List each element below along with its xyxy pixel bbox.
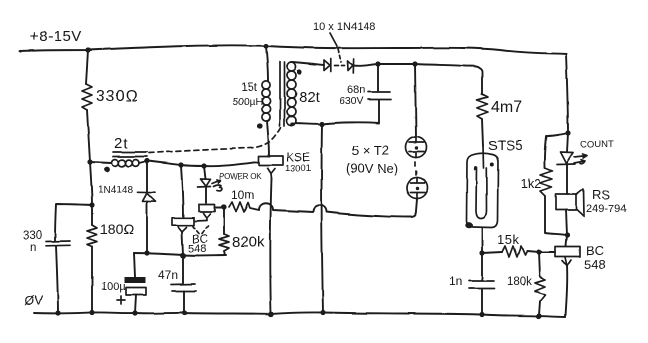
svg-text:ØV: ØV [24,293,43,308]
svg-text:548: 548 [584,257,606,272]
transistor Q4 emitter arrow [562,257,571,266]
wire: junction to 15k [482,252,502,253]
svg-text:100µ: 100µ [101,281,126,293]
capacitor 68n [368,92,391,100]
wire: 15k to base node [527,251,539,252]
GM tube anode loop [475,146,487,219]
wire: 82t bottom from coil [291,123,294,125]
svg-text:KSE: KSE [286,150,310,164]
wire: 82t return to 0V rail [322,124,323,312]
wire: Q3 emitter to 0V rail [270,179,271,313]
node: Q1 collector junction [178,162,183,167]
svg-text:1n: 1n [449,274,462,288]
svg-text:630V: 630V [339,95,364,107]
svg-text:249-794: 249-794 [586,203,626,215]
diode chain dashes [335,65,345,67]
wire: Q2 base to 10m/820k node [215,207,223,209]
wire: base node to Q4 [539,251,555,253]
svg-text:180k: 180k [507,276,532,288]
node: D2/100u junction [144,250,149,255]
wire: junction to 1n [481,253,483,280]
transistor Q3 emitter arrow [268,168,276,179]
svg-text:10m: 10m [231,188,254,202]
transistor Q4 BC548 body [555,247,580,257]
LED count [557,152,576,165]
wire: neon chain top [415,64,416,136]
82t phasing dot [297,69,302,74]
wire: 15t to KSE collector [267,121,269,156]
wire: 10m feedback to neon chain with hops [250,199,417,217]
svg-text:330Ω: 330Ω [96,88,139,105]
transistor Q1 BC548 body [172,218,194,225]
wire: node to count LED [567,133,568,152]
resistor 4m7 [477,94,488,119]
node: LED/1k2 junction [565,130,570,135]
transistor Q2 emitter arrow [195,213,211,221]
svg-text:5 × T2: 5 × T2 [352,143,389,158]
LED arrows [212,180,222,191]
node: rail/15t junction [263,43,268,48]
dashed label leaders [193,226,208,234]
wire: 820k to bus [224,251,225,255]
diode chain D3 [324,59,331,72]
capacitor 1n [469,281,495,289]
wire: Q1 emitter down [182,232,183,256]
capacitor 100u electrolytic [125,277,146,283]
label + polarity [117,296,125,304]
inductor 82t winding [287,62,296,125]
wire: 100u to 0V rail [135,295,136,313]
wire: D2 anode down [146,202,148,254]
wire: 1n to 0V rail [481,289,483,314]
svg-text:13001: 13001 [285,163,311,174]
resistor 820k [219,234,229,251]
svg-text:COUNT: COUNT [580,139,614,150]
transformer core [280,62,285,126]
diode chain D4 [348,59,354,73]
wire: tube to 15k node [481,228,483,253]
wire: LED to speaker [566,165,568,195]
resistor 330R [82,84,92,110]
label leader line [330,33,337,46]
svg-text:548: 548 [188,243,206,255]
2t core lines [113,152,147,157]
svg-text:10 x 1N4148: 10 x 1N4148 [313,21,375,33]
svg-text:n: n [30,242,36,254]
svg-text:47n: 47n [158,268,178,282]
wire: base line to KSE13001 [147,161,259,166]
capacitor 330n [46,241,70,246]
transistor Q3 KSE13001 body [259,156,283,165]
wire: rail to 330R [86,50,88,84]
wire: LED branch down [204,166,206,179]
wire: 180R to 0V rail [91,247,93,313]
node: tube/15k/1n junction [479,250,484,255]
wire: 330n to 0V rail [56,246,58,313]
svg-text:1k2: 1k2 [521,177,541,191]
svg-text:4m7: 4m7 [491,99,522,116]
wire: Q4 emitter to 0V rail [566,266,568,317]
node: 82t return junction [319,121,324,126]
svg-text:82t: 82t [299,89,321,106]
svg-text:(90V Ne): (90V Ne) [346,161,398,176]
2t phasing dot [104,167,110,173]
node: 180k ground [536,313,541,318]
neon lamp N1 [406,137,427,158]
node: 2t tee [87,159,92,164]
node: LED branch junction [201,163,206,168]
wire: emitter node bus [134,253,226,255]
GM tube cathode blob [465,222,472,228]
svg-text:330: 330 [23,230,42,242]
resistor 180k [535,277,545,301]
wire: junction to diode D2 [146,161,148,192]
wire: 0V bottom rail [34,312,566,317]
wire: speaker to collector node [566,210,567,235]
node: 68n junction [375,61,380,66]
svg-text:15t: 15t [241,82,258,94]
node: 100u ground [132,310,137,315]
node: Q3 emitter ground [268,311,273,316]
wire: 68n bottom to 82t return [292,100,379,124]
node: Q1 emitter / 47n junction [180,253,186,259]
inductor 2t winding [112,160,139,167]
wire: Q1 collector [181,166,183,217]
resistor 180R [87,225,97,247]
15t phasing dot [257,123,262,128]
wire: rail down to LED node [566,54,568,133]
node: 180R ground [89,310,94,315]
wire: 1k2 branch top [544,133,568,168]
svg-text:15k: 15k [497,232,519,247]
wire: 180k to 0V rail [539,301,540,315]
transistor Q1 emitter arrow [178,227,187,232]
svg-text:POWER OK: POWER OK [219,172,262,181]
resistor 15k [502,246,527,257]
node: D2 top junction [144,158,149,163]
resistor 1k2 [540,168,552,196]
wire: 2t coil to base line [139,161,147,163]
dashed core coupling line [149,127,281,153]
node: 1n ground [479,312,484,317]
wire: node to 820k [223,208,225,234]
neon lamp N2 [407,178,428,199]
wire: LED to Q2 [205,187,207,203]
svg-text:500µH: 500µH [233,97,263,108]
wire: node to 180k [539,252,540,277]
svg-text:2t: 2t [114,135,129,152]
inductor 15t winding [262,81,270,121]
node: rail/330R junction [85,47,90,52]
GM tube dot [490,163,494,167]
svg-text:STS5: STS5 [488,137,523,153]
wire: 47n to 0V rail [183,291,185,313]
node: 82t return ground [320,310,325,315]
node: 330n ground [55,310,60,315]
LED power ok [198,179,211,187]
resistor 10m [229,202,250,212]
wire: 82t top to diode chain [292,62,325,65]
wire: bus to 100u [134,253,135,277]
node: 330n tee [89,202,94,207]
wire: HV line [354,64,482,94]
diode D2 1N4148 [137,192,156,201]
speaker RS 249-794 [556,189,584,217]
wire: 47n to bus [182,255,184,283]
svg-text:RS: RS [592,187,610,202]
svg-text:BC: BC [586,243,604,258]
wire: tee to 330n [55,204,92,240]
wire: 330n tee to 180R [90,162,92,225]
node: collector junction [565,232,570,237]
node: 47n ground [182,310,187,315]
wire: 4m7 to tube [482,119,483,146]
wire: 1k2 bottom to collector node [545,196,566,235]
wire: rail to 15t [266,46,268,81]
dashes between neons [415,162,416,175]
wire: +V top rail [20,45,566,54]
wire: tee to 2t coil [90,162,111,163]
node: Q2 base junction [221,204,226,209]
svg-text:1N4148: 1N4148 [98,185,133,196]
svg-text:180Ω: 180Ω [100,221,134,237]
svg-text:+8-15V: +8-15V [30,28,82,45]
wire: 330R to 2t tee [87,110,90,162]
wire: node to Q4 collector [566,235,567,246]
transistor Q2 BC548 body [199,205,216,212]
wire: 68n top [377,64,379,91]
node: base/180k junction [536,249,541,254]
capacitor 47n [171,284,196,291]
GM tube STS5 envelope [467,153,499,227]
svg-text:820k: 820k [232,234,265,251]
node: neon chain junction [412,61,417,66]
LED count arrows [574,154,587,164]
